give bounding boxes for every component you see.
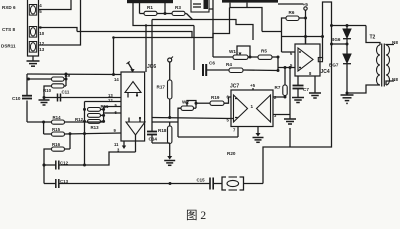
capacitor C4 block xyxy=(191,0,213,12)
svg-text:R3: R3 xyxy=(175,5,181,10)
svg-text:JC4: JC4 xyxy=(321,69,330,75)
svg-text:+5: +5 xyxy=(250,83,256,88)
ground arrow below R18 xyxy=(164,143,175,165)
JC6 tri1 input stubs xyxy=(128,93,138,98)
wire CTS out xyxy=(39,28,78,32)
svg-text:C14: C14 xyxy=(149,137,158,142)
resistor R12 xyxy=(75,114,101,123)
wire R4 right xyxy=(243,69,278,72)
op-amp JC4 triangle xyxy=(298,48,313,71)
pin 5 xyxy=(39,9,42,14)
svg-text:RXD 6: RXD 6 xyxy=(2,5,16,10)
wire R16 left down xyxy=(43,149,52,184)
bus line from CTS xyxy=(77,8,230,38)
JC6 triangle down xyxy=(126,122,145,135)
op-amp JC4 box xyxy=(295,44,320,76)
potentiometer W1 xyxy=(229,46,250,59)
JC6 box xyxy=(121,72,145,141)
JC6 pin 13 label xyxy=(108,93,113,98)
wire BG6-BG7 xyxy=(346,39,348,54)
svg-text:R6: R6 xyxy=(289,10,295,15)
wire R12 right xyxy=(101,114,104,116)
wire C12 branch xyxy=(43,164,56,167)
JC4 pin 6 label xyxy=(290,51,301,56)
left vertical with C10 xyxy=(26,74,28,122)
bottom bus (C13 line) xyxy=(44,182,210,185)
bus y122 xyxy=(152,121,178,123)
pin 4 xyxy=(39,3,42,8)
svg-text:R14: R14 xyxy=(53,115,62,120)
caption 图 2 xyxy=(186,209,206,222)
crystal R20 dashed box xyxy=(222,177,244,190)
riser x152 down xyxy=(151,20,153,118)
pin 9 xyxy=(39,25,42,30)
wire L1 to C6 xyxy=(193,26,195,71)
pin 13 xyxy=(39,47,44,52)
JC7 pin 6 label xyxy=(227,95,238,100)
wire R19 to JC7 xyxy=(224,97,231,103)
resistor R6 xyxy=(286,10,299,21)
svg-text:JC7: JC7 xyxy=(230,84,239,90)
long loop wire right xyxy=(263,26,332,184)
riser x113 to JC6 pin14 xyxy=(112,36,115,74)
wire R9 left xyxy=(27,78,52,81)
JC6 pin 3 stub xyxy=(117,135,136,153)
wire R5 right xyxy=(272,56,280,59)
JC7 label xyxy=(230,84,239,90)
wire R7 bottom to pin2 xyxy=(284,96,287,99)
transformer T2 primary coil xyxy=(377,45,380,85)
svg-text:N8: N8 xyxy=(392,77,398,82)
svg-text:12: 12 xyxy=(108,98,113,103)
wire RXD out up xyxy=(39,0,72,10)
W2 right node xyxy=(194,102,198,109)
diode mid stub xyxy=(330,43,349,46)
wire R15 left xyxy=(44,133,52,135)
diode BG6 xyxy=(331,26,351,43)
wire to JC4 pin5 xyxy=(278,66,295,69)
ground under C7 xyxy=(292,98,304,103)
JC7 pin 4 ground xyxy=(253,127,264,143)
svg-text:图 2: 图 2 xyxy=(186,209,206,222)
svg-text:R12: R12 xyxy=(75,117,84,122)
resistor R14 xyxy=(52,115,65,124)
JC7 right triangle xyxy=(257,95,271,122)
bus line y37 xyxy=(114,37,193,39)
receiver gate 1 xyxy=(29,5,36,16)
svg-text:DSR11: DSR11 xyxy=(1,44,16,49)
stub x290 loop xyxy=(289,128,291,147)
wire x213 to W1 xyxy=(213,56,233,58)
svg-text:11: 11 xyxy=(114,142,119,147)
JC6 pin 12 label xyxy=(108,98,113,103)
JC6 label xyxy=(147,64,156,70)
svg-text:N8: N8 xyxy=(392,40,398,45)
label DSR11 xyxy=(1,44,16,49)
JC7 node 1 label xyxy=(251,104,254,109)
wire R11 right xyxy=(101,108,104,110)
JC7 pin 2 wire xyxy=(273,96,285,98)
JC7 pin5 wire xyxy=(231,118,234,120)
JC7 box xyxy=(231,90,273,127)
resistor R15 xyxy=(52,127,65,136)
wire DSR out up xyxy=(39,0,81,45)
vertical x213 from top xyxy=(212,0,214,57)
bus line y19 to JC7 +5 area xyxy=(152,20,253,41)
resistor R4 xyxy=(226,62,243,73)
svg-text:BG6: BG6 xyxy=(331,37,341,42)
wire bar2 right to +5 rail xyxy=(278,3,303,5)
receiver gate 2 xyxy=(29,27,36,38)
svg-text:W1: W1 xyxy=(229,49,236,54)
svg-text:R19: R19 xyxy=(211,95,220,100)
wire R16 right xyxy=(65,134,71,149)
wire pin13 line xyxy=(44,97,121,99)
svg-text:R20: R20 xyxy=(227,151,236,156)
svg-text:13: 13 xyxy=(39,47,44,52)
svg-text:BG7: BG7 xyxy=(329,63,339,68)
svg-text:R16: R16 xyxy=(52,142,61,147)
svg-text:C11: C11 xyxy=(62,90,70,95)
potentiometer W2 xyxy=(181,100,196,111)
ground under JC4 pin8 xyxy=(309,93,321,98)
JC4 output riser xyxy=(323,2,332,60)
svg-text:T2: T2 xyxy=(370,35,376,41)
JC4 pin 8 stub xyxy=(309,71,315,93)
JC6 tri2 input stubs xyxy=(129,117,141,122)
svg-text:CTS 8: CTS 8 xyxy=(2,27,15,32)
wire R10 left down xyxy=(43,86,52,100)
JC7 pin7 wire left xyxy=(178,122,238,137)
wire y31 right segment xyxy=(262,31,282,33)
wire R17 bottom xyxy=(168,99,171,119)
JC7 pin 2 label xyxy=(274,95,277,100)
ground under R10 xyxy=(39,100,50,105)
wire R15 right / pin9 line xyxy=(65,132,122,135)
JC6 pin 14 label xyxy=(114,77,119,82)
transformer T2 label xyxy=(370,35,376,41)
node R1-R3 xyxy=(157,3,172,15)
JC4 pin 5 label xyxy=(290,63,301,68)
wire R14 right xyxy=(65,121,104,123)
wire R14 left xyxy=(44,122,52,134)
resistor R10 xyxy=(43,84,64,93)
transformer T2 secondary coil xyxy=(386,45,390,85)
wire R7 top xyxy=(284,68,286,86)
capacitor C14 xyxy=(147,118,157,144)
wire C15 to R20 xyxy=(213,183,222,185)
JC7 pin 3 wire xyxy=(273,115,290,120)
bus y36 feedback xyxy=(282,35,325,38)
svg-text:14: 14 xyxy=(114,77,119,82)
capacitor C6 xyxy=(203,61,215,77)
svg-text:R15: R15 xyxy=(52,127,61,132)
svg-text:R4: R4 xyxy=(226,62,232,67)
riser x146 to JC6 top xyxy=(145,26,147,73)
cluster right riser xyxy=(102,107,105,123)
JC4 label xyxy=(321,69,330,75)
W2 left drop xyxy=(178,108,181,122)
receiver gate 3 xyxy=(29,42,36,53)
wire BG7 to ground xyxy=(346,64,349,95)
JC7 +5 pin xyxy=(250,83,256,90)
svg-text:1: 1 xyxy=(251,104,254,109)
label RXD 6 xyxy=(2,5,16,10)
svg-text:R1: R1 xyxy=(147,5,153,10)
resistor R7 xyxy=(275,85,288,96)
node L1-x146 xyxy=(145,24,147,26)
capacitor C12 xyxy=(56,161,69,170)
JC6 pin 11 stub xyxy=(114,141,126,149)
capacitor C13 xyxy=(56,179,69,188)
svg-text:R17: R17 xyxy=(157,85,166,90)
wire R9-R10 right xyxy=(64,74,68,86)
resistor R19 xyxy=(210,95,224,105)
wire C14-R18 join xyxy=(152,142,170,144)
JC7 pin 5 label xyxy=(227,118,238,123)
wire R6 right node xyxy=(299,17,307,20)
resistor R5 xyxy=(258,49,272,60)
ground under diodes xyxy=(341,95,354,103)
JC6 pin12 line xyxy=(85,101,122,103)
wire C6 to R4 xyxy=(206,69,229,71)
node N8 bottom xyxy=(392,77,398,82)
JC4 top pin xyxy=(305,37,307,45)
resistor R18 xyxy=(158,122,172,144)
resistor R13 xyxy=(88,120,101,131)
JC6 power arrow xyxy=(127,62,135,73)
JC7 left triangle xyxy=(234,95,248,122)
JC6 pin 6 label xyxy=(115,110,118,115)
wire R6 left drop xyxy=(282,18,287,52)
T2 left-top lead xyxy=(366,26,380,46)
riser x278 xyxy=(277,57,280,72)
capacitor C11 xyxy=(58,90,70,102)
transformer T2 core xyxy=(382,44,385,87)
wire R20 right xyxy=(244,183,264,185)
wire bar to R1 xyxy=(140,3,145,14)
crystal R20 label xyxy=(227,151,236,156)
IC bar (top, cut off) with pins xyxy=(127,0,173,3)
wire R3 right diagonal xyxy=(185,14,193,20)
diode top rail xyxy=(330,24,366,27)
T2 right-top lead xyxy=(386,44,394,47)
wire top of left section xyxy=(27,73,121,77)
JC7 pin 7 stub xyxy=(233,127,238,138)
wire R13 right xyxy=(101,120,104,122)
node W1-R5 xyxy=(248,56,258,59)
JC6 pin 5 label xyxy=(115,103,118,108)
node N8 top xyxy=(392,40,398,45)
ground under U5 xyxy=(27,56,40,66)
JC7 pin 3 label xyxy=(274,113,277,118)
svg-text:C10: C10 xyxy=(12,96,21,101)
JC4 pin 7 output square xyxy=(318,58,322,62)
pin 10 xyxy=(39,31,44,36)
label CTS 8 xyxy=(2,27,15,32)
wire x290 down xyxy=(289,68,291,115)
wire C12 to JC6 xyxy=(59,152,136,165)
JC6 pin 9 label xyxy=(114,128,117,133)
resistor R9 xyxy=(52,73,71,81)
bar2 pin loop xyxy=(230,3,262,32)
diode BG7 xyxy=(329,54,351,68)
wire C10 to R14 xyxy=(27,121,45,124)
wire pin6 JC4 xyxy=(282,51,296,53)
svg-text:JC6: JC6 xyxy=(147,64,156,70)
svg-text:C15: C15 xyxy=(197,178,206,183)
resistor R11 xyxy=(88,104,109,111)
resistor R1 xyxy=(144,5,157,15)
capacitor C7 xyxy=(293,76,310,97)
IC bar 2 (top, cut off) xyxy=(222,0,278,3)
svg-text:C6: C6 xyxy=(209,61,215,66)
IC U5 line-receiver block outline xyxy=(28,0,39,56)
power terminal +5 (R17) xyxy=(168,57,173,63)
svg-text:R5: R5 xyxy=(261,49,267,54)
JC6 pin6 line xyxy=(104,112,121,114)
pin 12 xyxy=(39,41,44,46)
cluster left bus xyxy=(83,102,86,166)
resistor R16 xyxy=(52,142,65,151)
T2 right-bottom lead xyxy=(386,81,394,85)
svg-text:C7: C7 xyxy=(303,87,309,92)
node x84 on C12 line xyxy=(83,164,86,167)
power +5 (top) xyxy=(303,2,309,44)
capacitor C10 xyxy=(12,96,32,101)
JC6 pin5 line xyxy=(104,106,121,108)
bus y117 xyxy=(152,118,231,119)
resistor R17 xyxy=(157,62,172,99)
JC6 triangle up xyxy=(125,82,141,93)
wire W2 to R19 xyxy=(196,102,210,104)
svg-text:R13: R13 xyxy=(91,125,100,130)
ground under pin3 xyxy=(284,119,296,124)
svg-text:R18: R18 xyxy=(158,128,167,133)
capacitor C15 xyxy=(197,178,214,190)
svg-text:10: 10 xyxy=(39,31,44,36)
resistor R3 xyxy=(172,5,185,15)
wire R1-left drop xyxy=(133,3,194,26)
T2 left-bottom lead xyxy=(347,85,380,93)
svg-text:R7: R7 xyxy=(275,85,281,90)
